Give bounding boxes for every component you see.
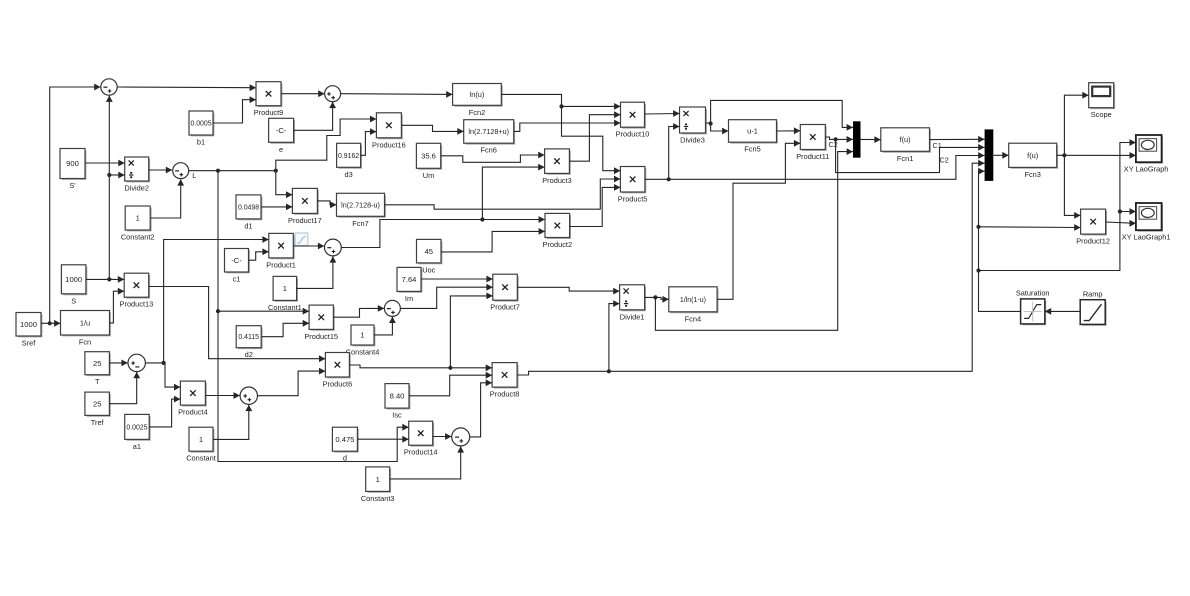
svg-text:Fcn6: Fcn6 xyxy=(480,146,496,155)
wire Sum1 output to Product9 in1 xyxy=(117,84,256,91)
wire Fcn1 to Mux2 in1 xyxy=(930,136,985,143)
svg-text:C1: C1 xyxy=(933,141,942,150)
xygraph XY LaoGraph xyxy=(1124,135,1169,174)
product Product9 xyxy=(254,82,284,118)
wire Product8 branch to Divide1 in2 xyxy=(609,300,620,371)
svg-text:Ramp: Ramp xyxy=(1083,289,1103,298)
constant d2 (0.4115) xyxy=(236,326,262,360)
svg-text:1: 1 xyxy=(283,284,287,293)
svg-text:f(u): f(u) xyxy=(900,135,911,144)
svg-text:b1: b1 xyxy=(197,138,205,147)
fcn Fcn2 (ln(u)) xyxy=(453,84,503,117)
svg-text:Product10: Product10 xyxy=(616,130,650,139)
wire Mux2 to Fcn3 xyxy=(993,152,1008,159)
wire Fcn2 branch to Product5 in1 xyxy=(562,106,621,174)
divide Divide2 xyxy=(124,157,149,193)
wire Saturation to Mux2 in5 xyxy=(976,168,1020,312)
svg-text:Product9: Product9 xyxy=(254,108,284,117)
constant Um (35.6) xyxy=(416,143,441,180)
wire Product9 to Sum2 xyxy=(281,90,325,97)
product Product7 xyxy=(490,274,520,312)
product Product13 xyxy=(120,273,154,309)
svg-text:d2: d2 xyxy=(245,350,253,359)
constant T (25) xyxy=(85,352,110,387)
svg-text:a1: a1 xyxy=(133,442,141,451)
wire Product4 to Sum6 xyxy=(206,392,240,399)
wire Sum2 to Fcn2 xyxy=(341,91,453,98)
svg-text:Constant2: Constant2 xyxy=(121,233,155,242)
constant e (-C-) xyxy=(269,118,295,154)
constant d (0.475) xyxy=(332,427,358,463)
product Product15 xyxy=(304,305,338,341)
constant Constant4 (1) xyxy=(346,325,380,357)
svg-text:S': S' xyxy=(69,181,76,190)
svg-text:Fcn5: Fcn5 xyxy=(744,145,760,154)
sum Sum7 (after Product14) xyxy=(452,428,470,446)
wire Divide1 to Fcn4 xyxy=(645,295,669,302)
svg-text:Product13: Product13 xyxy=(120,300,154,309)
wire Sum5 branch up to Product1 in1 xyxy=(164,236,269,363)
svg-text:Constant3: Constant3 xyxy=(361,494,395,503)
svg-text:Isc: Isc xyxy=(392,411,402,420)
svg-text:Product12: Product12 xyxy=(1076,237,1110,246)
svg-text:XY LaoGraph1: XY LaoGraph1 xyxy=(1122,233,1171,242)
svg-text:45: 45 xyxy=(425,247,433,256)
svg-text:C2: C2 xyxy=(940,156,949,165)
svg-text:0.4115: 0.4115 xyxy=(238,334,259,341)
svg-text:Constant: Constant xyxy=(186,454,216,463)
svg-text:Product5: Product5 xyxy=(618,195,648,204)
constant Sref (1000) xyxy=(16,313,42,348)
svg-text:Tref: Tref xyxy=(91,418,105,427)
constant Constant1 (1) xyxy=(268,276,302,312)
svg-text:Sref: Sref xyxy=(22,339,37,348)
constant Constant2 (1) xyxy=(121,206,155,242)
wire Product3 to Product10 in2 xyxy=(569,111,620,161)
svg-text:1000: 1000 xyxy=(20,320,37,329)
wire Divide2 to SumL xyxy=(149,167,173,174)
svg-text:ln(2.7128-u): ln(2.7128-u) xyxy=(341,200,380,209)
svg-text:35.6: 35.6 xyxy=(421,152,436,161)
wire Constant1 to Sum3 bottom xyxy=(297,256,337,288)
svg-text:1: 1 xyxy=(360,331,364,340)
svg-text:u-1: u-1 xyxy=(747,127,758,136)
svg-text:0.0005: 0.0005 xyxy=(190,121,211,128)
svg-text:0.9162: 0.9162 xyxy=(338,153,359,160)
product Product10 xyxy=(616,102,650,139)
wire L branch down to Product14 in1 xyxy=(216,171,409,462)
product Product5 xyxy=(618,167,648,204)
wire Isc to Product8 in2 xyxy=(409,372,492,396)
svg-text:Fcn1: Fcn1 xyxy=(897,154,913,163)
wire Sum7 to Product8 in3 xyxy=(470,379,492,437)
wire Product5 branch to Divide3 in2 xyxy=(669,123,680,179)
wire Product10 to Divide3 in1 xyxy=(645,110,680,117)
wire L branch to Product15 in1 xyxy=(218,308,309,315)
svg-text:-C-: -C- xyxy=(231,256,242,265)
wire Fcn7 to Product5 in2 xyxy=(385,176,621,210)
wire Product8 output to Mux2 in4 xyxy=(517,160,985,375)
wire Product6 branch to Product7 in3 xyxy=(450,293,492,368)
svg-text:f(u): f(u) xyxy=(1027,151,1038,160)
svg-text:T: T xyxy=(95,377,100,386)
svg-text:Product1: Product1 xyxy=(266,260,296,269)
wire S branch up to Sum1 bottom xyxy=(106,96,113,280)
svg-text:L: L xyxy=(192,171,196,180)
constant Tref (25) xyxy=(85,392,110,427)
wire Divide1 branch to Mux1 in3 xyxy=(655,148,853,330)
wire Product5 output to Mux2 in3 xyxy=(645,152,985,181)
svg-text:Product14: Product14 xyxy=(404,448,438,457)
constant Constant (1) xyxy=(186,427,216,463)
constant Constant3 (1) xyxy=(361,467,395,503)
wire branch to Product3 in2 xyxy=(482,164,544,220)
wire c1 to Product1 in2 xyxy=(249,248,269,260)
wire Sum6 to Product6 in2 xyxy=(258,368,326,396)
svg-text:Uoc: Uoc xyxy=(422,265,435,274)
wire Fcn2 to Product10 in1 and Product5 in1 xyxy=(501,94,620,109)
saturation Saturation xyxy=(1016,289,1050,325)
wire Mux1 to Fcn1 xyxy=(861,136,881,143)
wire a1 to Product4 in2 xyxy=(149,396,180,427)
svg-text:ln(u): ln(u) xyxy=(470,90,485,99)
sum Sum6 (after Product4) xyxy=(240,387,257,404)
wire L line to Product16 in1 xyxy=(189,116,377,173)
mux Mux2 xyxy=(985,129,994,181)
svg-text:Product16: Product16 xyxy=(372,140,406,149)
ramp Ramp xyxy=(1080,289,1106,325)
svg-text:1: 1 xyxy=(136,214,140,223)
svg-text:C2: C2 xyxy=(829,140,838,149)
svg-text:ln(2.7128+u): ln(2.7128+u) xyxy=(468,127,509,136)
fcn Fcn4 (1/ln(1-u)) xyxy=(669,287,718,324)
wire Fcn to Product13 in2 xyxy=(110,288,125,323)
badge linearization icon near Product1 xyxy=(295,233,308,246)
wire Constant4 to Sum4 bottom xyxy=(374,317,396,335)
product Product17 xyxy=(288,188,322,225)
wire Constant3 to Sum7 bottom xyxy=(390,446,464,479)
wire Fcn3 to XY LaoGraph in2 xyxy=(1057,152,1136,159)
product Product1 xyxy=(266,233,296,269)
wire Sum3 output to Product2 in1 xyxy=(341,216,545,247)
svg-text:Product6: Product6 xyxy=(323,380,353,389)
wire Product16 to Fcn6 xyxy=(401,125,463,135)
constant S (1000) xyxy=(61,265,86,306)
wire d1 to Product17 in2 xyxy=(261,204,292,211)
svg-text:d3: d3 xyxy=(344,170,352,179)
wire S to Product13 in1 xyxy=(86,276,124,283)
wire Divide3 to Fcn5 xyxy=(706,121,729,134)
product Product6 xyxy=(323,353,353,389)
svg-text:Divide1: Divide1 xyxy=(620,312,645,321)
wire Im to Product7 in1 xyxy=(421,276,493,283)
svg-text:1000: 1000 xyxy=(65,275,82,284)
wire U line branch to Product12 in2 xyxy=(979,224,1081,231)
wire U line to XY LaoGraph in1 xyxy=(979,139,1136,270)
svg-text:c1: c1 xyxy=(233,275,241,284)
svg-text:d1: d1 xyxy=(244,221,252,230)
sum Sum4 (after Product15) xyxy=(384,300,400,316)
svg-text:Um: Um xyxy=(423,171,435,180)
sum Sum1 (top-left) xyxy=(101,79,117,95)
wire branch to Divide2 in2 xyxy=(109,172,124,179)
wire Fcn5 to Product11 in1 xyxy=(777,127,801,134)
svg-text:Fcn2: Fcn2 xyxy=(469,108,485,117)
wire U line branch to XY LaoGraph1 in1 xyxy=(1120,208,1136,215)
constant S' (900) xyxy=(60,149,86,191)
wire Sum4 to Product7 in2 xyxy=(401,284,493,309)
svg-text:Product4: Product4 xyxy=(178,408,208,417)
wire Product17 to Fcn7 xyxy=(317,201,336,208)
wire Sum5 output to Product4 in1 xyxy=(146,361,181,391)
svg-text:Product2: Product2 xyxy=(543,240,573,249)
constant Uoc (45) xyxy=(417,239,442,274)
constant a1 (0.0025) xyxy=(125,414,150,451)
product Product16 xyxy=(372,113,406,150)
wire Fcn4 to Product11 in2 xyxy=(717,140,800,299)
wire d3 to Product16 in2 xyxy=(361,128,377,155)
wire Product14 to Sum7 xyxy=(433,433,452,440)
svg-text:Product7: Product7 xyxy=(490,303,520,312)
divide Divide1 xyxy=(620,285,646,322)
svg-text:e: e xyxy=(279,145,283,154)
svg-text:Product11: Product11 xyxy=(796,152,829,161)
constant Isc (8.40) xyxy=(385,384,410,420)
wire branch to Product12 in1 xyxy=(1064,155,1080,219)
sum Sum3 (after Product1) xyxy=(325,239,342,256)
product Product14 xyxy=(404,421,438,457)
product Product3 xyxy=(542,149,572,185)
product Product11 xyxy=(796,125,829,162)
wire e to Sum2 bottom xyxy=(294,102,336,131)
svg-text:1/ln(1-u): 1/ln(1-u) xyxy=(680,297,706,304)
wire Sref to Fcn xyxy=(41,320,61,327)
wire Product1 to Sum3 xyxy=(293,243,324,250)
svg-text:Divide3: Divide3 xyxy=(680,136,705,145)
product Product12 xyxy=(1076,209,1110,246)
svg-text:1: 1 xyxy=(376,475,380,484)
svg-text:Divide2: Divide2 xyxy=(124,184,149,193)
wire Uoc to Product2 in2 xyxy=(441,228,545,252)
svg-text:900: 900 xyxy=(66,159,79,168)
wire b1 to Product9 in2 xyxy=(213,96,256,123)
wire Fcn6 to Product10 in3 xyxy=(514,120,621,132)
svg-text:Product17: Product17 xyxy=(288,216,322,225)
sum Sum5 (T-Tref) xyxy=(128,354,145,371)
wire d to Product14 in2 xyxy=(358,436,409,443)
svg-text:1: 1 xyxy=(199,435,203,444)
wire Product15 to Sum4 xyxy=(333,305,384,317)
sum SumL (L node) xyxy=(173,163,197,181)
svg-text:0.475: 0.475 xyxy=(335,435,354,444)
wire Tref to Sum5 bottom xyxy=(109,372,140,404)
fcn Fcn (1/u) xyxy=(61,311,111,347)
divide Divide3 xyxy=(680,107,707,145)
constant Im (7.64) xyxy=(397,267,422,303)
xygraph XY LaoGraph1 xyxy=(1122,203,1171,242)
fcn Fcn5 (u-1) xyxy=(729,120,778,154)
wire Product11 branch to Mux2 in2 xyxy=(836,139,985,172)
svg-text:Im: Im xyxy=(405,294,413,303)
svg-text:Fcn7: Fcn7 xyxy=(352,219,368,228)
wire d2 to Product15 in2 xyxy=(261,320,309,337)
svg-text:S: S xyxy=(71,296,76,305)
wire Divide3 bypass to Mux1 in1 xyxy=(711,100,853,130)
fcn Fcn3 (f(u)) xyxy=(1009,143,1058,179)
fcn Fcn7 (ln(2.7128-u)) xyxy=(337,193,386,228)
wire Ramp to Saturation xyxy=(1045,308,1080,315)
wire Product13 to Product6 in1 xyxy=(149,287,326,363)
svg-text:XY LaoGraph: XY LaoGraph xyxy=(1124,165,1169,174)
product Product4 xyxy=(178,381,208,417)
svg-text:8.40: 8.40 xyxy=(390,392,405,401)
wire Sref branch to Sum1 left xyxy=(50,84,101,324)
wire Product7 to Divide1 in1 xyxy=(517,287,619,294)
wire S' to Divide2 in1 xyxy=(85,160,125,167)
product Product2 xyxy=(543,213,573,249)
svg-text:Fcn: Fcn xyxy=(79,338,91,347)
svg-text:0.0498: 0.0498 xyxy=(238,204,259,211)
svg-text:1/u: 1/u xyxy=(80,318,90,327)
svg-text:7.64: 7.64 xyxy=(402,275,417,284)
wire Um to Product3 in1 xyxy=(441,152,545,163)
svg-text:Product3: Product3 xyxy=(542,176,572,185)
sum Sum2 (after Product9) xyxy=(325,86,341,102)
wire L branch to Product17 in1 xyxy=(276,171,293,198)
svg-text:-C-: -C- xyxy=(276,126,287,135)
wire Constant2 to SumL bottom xyxy=(150,179,184,218)
wire Product6 to Product8 in1 xyxy=(350,364,493,371)
svg-text:Scope: Scope xyxy=(1091,110,1112,119)
constant d3 (0.9162) xyxy=(337,143,362,179)
svg-text:25: 25 xyxy=(93,359,101,368)
constant b1 (0.0005) xyxy=(189,111,214,147)
scope Scope xyxy=(1089,83,1115,120)
svg-text:25: 25 xyxy=(93,400,101,409)
wire Product12 to XY LaoGraph1 in2 xyxy=(1106,220,1136,227)
svg-text:0.0025: 0.0025 xyxy=(126,424,147,431)
constant c1 (-C-) xyxy=(225,249,250,284)
fcn Fcn1 (f(u)) xyxy=(881,128,931,163)
wire Constant to Sum6 bottom xyxy=(213,405,252,440)
svg-text:Fcn3: Fcn3 xyxy=(1024,170,1040,179)
product Product8 xyxy=(490,363,520,399)
wire Product2 to Product5 in3 xyxy=(570,184,621,227)
svg-text:Saturation: Saturation xyxy=(1016,289,1050,298)
wire branch to Scope xyxy=(1064,92,1088,156)
svg-text:Constant1: Constant1 xyxy=(268,303,302,312)
wire T to Sum5 xyxy=(109,360,127,367)
mux Mux1 xyxy=(853,121,861,157)
svg-text:Product15: Product15 xyxy=(304,332,338,341)
wire Product11 to Mux1 in2 xyxy=(825,136,853,143)
svg-text:Product8: Product8 xyxy=(490,390,520,399)
fcn Fcn6 (ln(2.7128+u)) xyxy=(464,120,515,155)
constant d1 (0.0498) xyxy=(236,195,262,231)
svg-text:Fcn4: Fcn4 xyxy=(685,314,701,323)
